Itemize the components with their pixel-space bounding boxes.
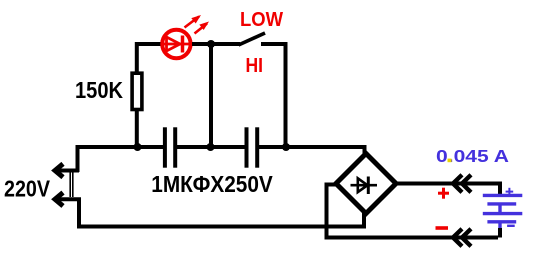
label 1МКФХ250V — [151, 171, 273, 197]
junction dot center branch/rail — [207, 143, 215, 151]
bridge internal diode — [351, 177, 378, 195]
wire main rail left segment down to plug — [78, 147, 164, 172]
wire switch right contact down to rail — [261, 44, 286, 147]
plug 220V top pin arrow — [55, 164, 79, 177]
wire battery bottom to minus rail — [498, 228, 502, 238]
wire rail right segment to bridge top — [259, 147, 365, 158]
label 150K — [75, 77, 123, 103]
label 0.045 A — [436, 146, 509, 166]
battery minus mark blue — [507, 225, 515, 227]
switch S1 lever — [239, 33, 266, 45]
svg-text:LOW: LOW — [240, 9, 283, 31]
plug 220V bottom pin arrow — [55, 193, 81, 206]
resistor R1 150K — [132, 73, 142, 109]
plug body double lines — [70, 172, 73, 197]
svg-text:220V: 220V — [4, 176, 51, 202]
battery B1 — [483, 195, 523, 230]
capacitor C1 — [165, 127, 175, 167]
junction dot at LED/switch branch — [207, 40, 215, 48]
wire junction down to capacitor rail — [209, 44, 213, 147]
wire rail between capacitors — [177, 145, 245, 149]
junction dot switch branch/rail — [282, 143, 290, 151]
yellow decimal point — [448, 159, 452, 163]
svg-text:1МКФХ250V: 1МКФХ250V — [151, 171, 273, 197]
LED D1 — [162, 15, 209, 58]
chevron connector on plus wire — [453, 175, 471, 193]
svg-text:0.045 A: 0.045 A — [436, 146, 509, 166]
wire resistor bottom to rail — [135, 110, 139, 147]
label plus red — [438, 188, 449, 199]
label 220V — [4, 176, 51, 202]
svg-text:HI: HI — [246, 55, 264, 77]
chevron connector on minus wire — [453, 229, 471, 247]
svg-text:150K: 150K — [75, 77, 123, 103]
label LOW — [240, 9, 283, 31]
label HI — [246, 55, 264, 77]
wire bottom rail from plug to bridge bottom — [79, 199, 364, 226]
wire from LED left corner down to resistor top — [137, 44, 162, 73]
wire DC minus from bridge left vertex to battery — [327, 185, 499, 238]
junction dot resistor/rail — [134, 143, 142, 151]
capacitor C2 — [247, 127, 258, 167]
wire DC plus from bridge right vertex to battery — [395, 184, 500, 196]
wire from LED to switch — [192, 42, 240, 46]
battery plus mark blue — [506, 188, 514, 196]
bridge rectifier BR1 diamond — [336, 154, 396, 214]
label minus red — [436, 226, 449, 230]
